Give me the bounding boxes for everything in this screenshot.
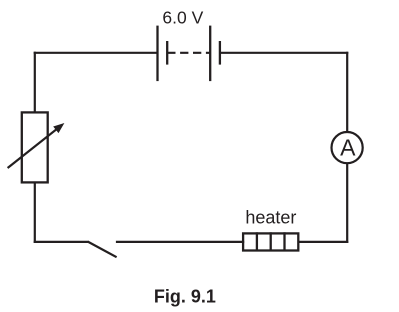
battery cell 1 long plate [156,26,158,82]
wire right upper vertical [346,52,348,133]
wire top-left (left side to battery) [34,52,158,54]
wire top-right (battery to right side) [220,52,348,54]
wire left lower vertical [34,182,36,243]
wire bottom-left (left side to switch) [34,241,88,243]
switch S (open blade) [88,242,117,258]
svg-text:Fig. 9.1: Fig. 9.1 [154,287,216,307]
battery cell 2 short plate [219,41,221,65]
variable resistor (rheostat) [8,112,65,182]
svg-text:heater: heater [245,208,296,228]
wire bottom-middle (switch to heater) [116,241,244,243]
wire bottom-right (corner to heater) [298,241,348,243]
battery cell 2 long plate [209,26,211,82]
wire left upper vertical [34,52,36,113]
ammeter A [332,132,363,163]
heater (4-section resistive element) [243,232,298,250]
svg-text:A: A [340,135,356,161]
svg-text:6.0 V: 6.0 V [162,7,203,27]
wire right lower vertical [346,163,348,243]
battery dashed link between cells [167,52,210,54]
battery cell 1 short plate [166,41,168,65]
